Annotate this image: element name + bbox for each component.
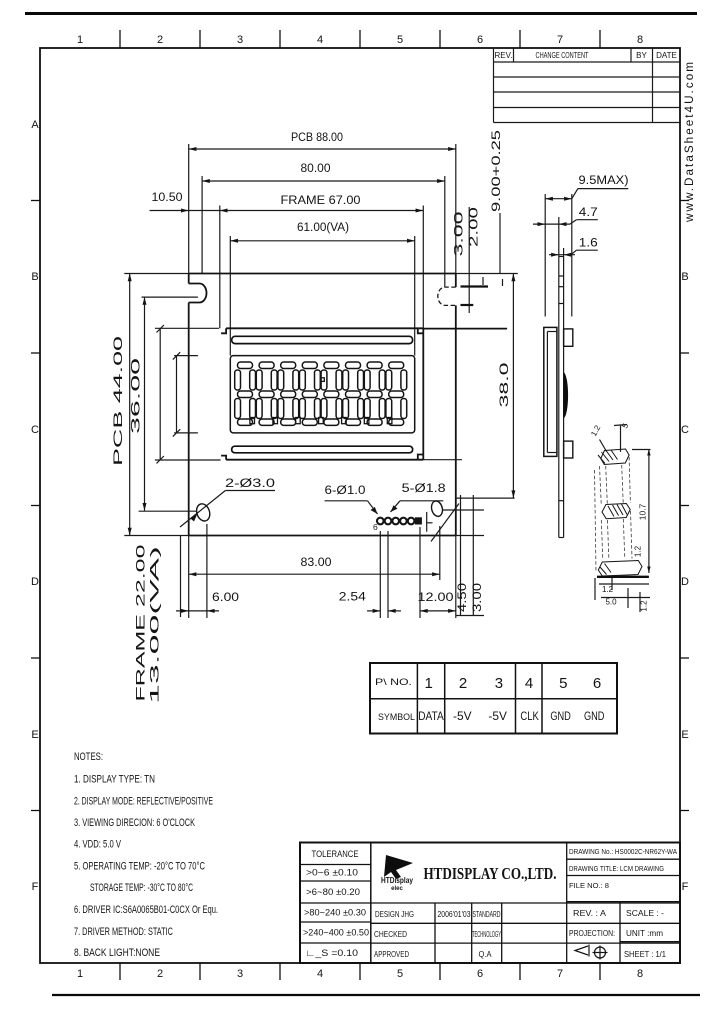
svg-text:5: 5 xyxy=(559,675,567,692)
svg-text:SYMBOL: SYMBOL xyxy=(378,712,415,723)
svg-text:4.50: 4.50 xyxy=(457,583,469,612)
dimension line 12.00 xyxy=(420,610,456,612)
svg-text:6: 6 xyxy=(477,968,483,980)
digit 8 xyxy=(386,362,407,425)
svg-text:FILE NO.: 8: FILE NO.: 8 xyxy=(569,881,609,890)
dimension line PCB 88.00 xyxy=(189,148,456,150)
extension line pin5 down xyxy=(387,531,389,618)
side view bottom tab xyxy=(564,441,573,458)
dimension line 36.00 xyxy=(144,297,146,511)
pcb left edge xyxy=(188,274,190,284)
detail mid segment xyxy=(602,504,630,519)
dimension line 80.00 xyxy=(202,180,445,182)
tolerance texts xyxy=(303,849,369,958)
side view pcb strip bottom cap xyxy=(559,537,564,539)
dimension line 2.54 xyxy=(367,610,380,612)
extension line bottom right xyxy=(456,615,484,617)
svg-text:P\ NO.: P\ NO. xyxy=(375,677,412,687)
svg-text:2-Ø3.0: 2-Ø3.0 xyxy=(225,478,275,490)
svg-text:3: 3 xyxy=(237,34,243,46)
svg-text:D: D xyxy=(681,576,689,588)
svg-text:SCALE : -: SCALE : - xyxy=(626,908,664,918)
extension line 4.50 xyxy=(460,495,462,616)
pin 3 circle xyxy=(400,518,407,525)
extension line frame area down xyxy=(180,536,182,618)
pcb right edge xyxy=(455,274,457,288)
svg-text:Q.A: Q.A xyxy=(479,949,492,959)
title block outline xyxy=(300,843,680,964)
svg-text:1. DISPLAY TYPE: TN: 1. DISPLAY TYPE: TN xyxy=(74,774,155,786)
detail bottom segment xyxy=(598,561,642,577)
bezel right edge xyxy=(422,328,424,459)
pin 5 circle xyxy=(385,518,392,525)
bezel bottom edge xyxy=(226,459,423,461)
side view pcb strip right edge xyxy=(563,257,565,538)
dimension line 9.5MAX xyxy=(545,198,572,200)
extension line hole centerline xyxy=(139,510,196,512)
extension line 38.0 bottom xyxy=(456,497,514,499)
dimension line 61.00(VA) xyxy=(230,240,414,242)
bezel top extension left xyxy=(155,327,219,329)
svg-text:>6~80 ±0.20: >6~80 ±0.20 xyxy=(306,887,360,897)
extension line 3.00 xyxy=(472,495,474,616)
pcb bottom edge extension left xyxy=(124,535,188,537)
svg-text:4. VDD: 5.0 V: 4. VDD: 5.0 V xyxy=(74,839,121,851)
bezel bottom extension right xyxy=(423,459,462,461)
svg-text:BY: BY xyxy=(636,51,647,60)
revision table header text xyxy=(495,51,677,60)
detail bottom dims xyxy=(599,583,649,585)
left mounting slot xyxy=(189,284,207,303)
svg-text:HTDISPLAY CO.,LTD.: HTDISPLAY CO.,LTD. xyxy=(424,864,557,883)
bezel bottom reflector bar xyxy=(232,446,413,453)
svg-text:DATA: DATA xyxy=(418,711,444,723)
company logo arrow xyxy=(384,855,413,879)
bezel bottom-left tab xyxy=(221,456,226,460)
digit 7 xyxy=(364,362,385,425)
extension line VA left up xyxy=(229,236,231,356)
extension line slot centerline xyxy=(142,296,198,298)
svg-text:STORAGE TEMP: -30°C TO 80°C: STORAGE TEMP: -30°C TO 80°C xyxy=(90,882,193,894)
svg-text:1: 1 xyxy=(77,34,83,46)
digit 6 xyxy=(343,362,364,425)
svg-text:38.0: 38.0 xyxy=(497,362,511,408)
bezel top-left tab xyxy=(221,328,226,333)
pin row tick xyxy=(426,512,428,532)
svg-text:80.00: 80.00 xyxy=(301,163,331,175)
extension line PCB right up xyxy=(455,144,457,274)
extension line pin1 down xyxy=(419,527,421,618)
svg-text:6: 6 xyxy=(477,34,483,46)
svg-text:>80~240 ±0.30: >80~240 ±0.30 xyxy=(304,908,366,918)
pin 6 circle xyxy=(377,518,384,525)
extension line for 2.00 xyxy=(468,207,470,313)
svg-text:2006'01'03: 2006'01'03 xyxy=(438,909,471,919)
lcd glass / VA outline xyxy=(230,356,414,433)
dimension line 38.0 xyxy=(512,274,514,499)
dimension line 13.00(VA) xyxy=(176,356,178,433)
svg-text:6-Ø1.0: 6-Ø1.0 xyxy=(325,485,366,497)
svg-text:5.0: 5.0 xyxy=(605,598,617,607)
svg-text:REV.: REV. xyxy=(495,51,513,60)
svg-text:TECHNOLOGY: TECHNOLOGY xyxy=(472,929,501,939)
svg-text:F: F xyxy=(682,881,689,893)
page bottom edge line xyxy=(52,994,700,996)
svg-text:6: 6 xyxy=(593,675,601,692)
svg-text:FRAME 67.00: FRAME 67.00 xyxy=(281,195,361,207)
border zone numbers bottom xyxy=(77,968,643,980)
dimension line FRAME 22.00 xyxy=(159,328,161,459)
svg-text:A: A xyxy=(31,119,39,131)
svg-text:4.7: 4.7 xyxy=(579,207,598,219)
svg-text:FRAME 22.00: FRAME 22.00 xyxy=(134,544,148,702)
svg-text:6.00: 6.00 xyxy=(212,592,239,604)
side view strip ticks xyxy=(559,276,564,501)
svg-text:GND: GND xyxy=(550,711,571,723)
svg-text:13.00(VA): 13.00(VA) xyxy=(148,546,162,704)
svg-text:5: 5 xyxy=(397,34,403,46)
svg-text:DRAWING TITLE: LCM DRAWING: DRAWING TITLE: LCM DRAWING xyxy=(569,864,664,873)
border zone letters right xyxy=(681,271,689,893)
svg-text:D: D xyxy=(31,576,39,588)
digit 3 xyxy=(278,362,299,425)
leader line to left hole xyxy=(180,491,225,528)
svg-text:PCB 88.00: PCB 88.00 xyxy=(291,132,343,144)
side view top tab xyxy=(564,329,573,346)
svg-text:4: 4 xyxy=(317,968,323,980)
svg-text:UNIT :mm: UNIT :mm xyxy=(626,928,663,938)
detail dashed construction lines lower xyxy=(601,520,603,560)
extension line pcb left down xyxy=(188,536,190,619)
svg-text:DESIGN JHG: DESIGN JHG xyxy=(375,909,414,919)
right mounting slot (hidden) xyxy=(438,287,456,305)
bezel bottom-right tab notch xyxy=(418,455,424,460)
digit 5 xyxy=(321,362,342,425)
svg-text:elec: elec xyxy=(391,886,403,892)
dimension line 6.00 xyxy=(176,610,219,612)
svg-text:4: 4 xyxy=(317,34,323,46)
svg-text:10.50: 10.50 xyxy=(152,192,183,204)
svg-text:CHECKED: CHECKED xyxy=(374,929,407,939)
dimension line PCB 44.00 xyxy=(129,274,131,536)
pin table outline xyxy=(370,663,617,734)
side view pcb strip left edge xyxy=(558,257,560,538)
svg-text:>0~6 ±0.10: >0~6 ±0.10 xyxy=(306,868,358,878)
bezel top reflector bar xyxy=(232,336,413,343)
extension line pcb right down xyxy=(455,536,457,619)
left mounting hole xyxy=(194,502,211,523)
extension line right slot end up xyxy=(444,176,446,287)
svg-text:CLK: CLK xyxy=(520,711,539,723)
border column ticks top xyxy=(120,30,600,48)
svg-text:61.00(VA): 61.00(VA) xyxy=(297,222,349,234)
svg-text:8: 8 xyxy=(637,968,643,980)
svg-text:8. BACK LIGHT:NONE: 8. BACK LIGHT:NONE xyxy=(74,947,160,959)
right hole leader diagonal xyxy=(431,504,459,542)
pin table verticals xyxy=(417,663,542,734)
extension line frame right up xyxy=(422,206,424,329)
svg-text:2: 2 xyxy=(157,34,163,46)
svg-text:>240~400 ±0.50: >240~400 ±0.50 xyxy=(303,928,369,938)
side view pcb front ext xyxy=(558,217,560,257)
svg-text:7. DRIVER METHOD: STATIC: 7. DRIVER METHOD: STATIC xyxy=(74,926,173,938)
title block middle rows xyxy=(371,843,680,964)
svg-text:-5V: -5V xyxy=(453,711,472,723)
dimension line FRAME 67.00 and 10.50 xyxy=(150,210,424,212)
pcb top edge xyxy=(189,273,456,275)
svg-text:3: 3 xyxy=(495,675,503,692)
right hole centerline xyxy=(443,509,484,511)
svg-text:2. DISPLAY MODE: REFLECTIVE/PO: 2. DISPLAY MODE: REFLECTIVE/POSITIVE xyxy=(74,796,213,808)
svg-text:STANDARD: STANDARD xyxy=(473,909,501,919)
svg-text:E: E xyxy=(681,729,688,741)
svg-text:REV. : A: REV. : A xyxy=(573,908,606,918)
revision table xyxy=(494,48,681,123)
pin table mid line xyxy=(370,698,617,700)
svg-text:1.2: 1.2 xyxy=(640,600,649,612)
svg-text:2: 2 xyxy=(157,968,163,980)
svg-text:6: 6 xyxy=(373,522,378,532)
svg-text:HTDisplay: HTDisplay xyxy=(381,876,413,885)
extension line VA top left xyxy=(174,355,198,357)
side view bezel outer xyxy=(544,327,557,456)
side view cob blob xyxy=(564,372,568,418)
svg-text:3.00: 3.00 xyxy=(472,583,484,612)
detail dashed construction lines upper xyxy=(595,457,633,572)
svg-text:DATE: DATE xyxy=(656,51,677,60)
pcb top edge extension right xyxy=(456,273,518,275)
svg-text:TOLERANCE: TOLERANCE xyxy=(312,849,359,859)
bezel top edge xyxy=(226,327,423,329)
right section rows xyxy=(567,859,680,963)
svg-text:∟_S =0.10: ∟_S =0.10 xyxy=(305,948,358,958)
side view 9.5 extension right xyxy=(571,194,573,317)
border row ticks left xyxy=(31,201,40,811)
svg-text:1: 1 xyxy=(425,675,433,692)
small dash marks xyxy=(482,277,484,285)
digit detail view xyxy=(598,449,642,576)
dimension line 83.00 xyxy=(189,573,440,575)
svg-text:3.00: 3.00 xyxy=(454,212,466,257)
digit 1 xyxy=(235,362,256,425)
right mounting hole xyxy=(430,500,444,518)
pcb top edge extension left xyxy=(124,273,188,275)
detail dim 10.7 xyxy=(648,449,650,573)
decimal point marks xyxy=(250,378,392,424)
extension line right hole down xyxy=(439,526,441,580)
pin numbers xyxy=(425,675,602,692)
projection symbol xyxy=(575,945,608,960)
svg-text:C: C xyxy=(681,424,689,436)
svg-text:5: 5 xyxy=(397,968,403,980)
short dim line 3.00 right of pcb xyxy=(461,285,489,287)
bezel bottom extension left xyxy=(155,459,221,461)
svg-text:B: B xyxy=(681,271,688,283)
svg-text:7: 7 xyxy=(557,34,563,46)
bezel top extension right xyxy=(423,328,507,330)
svg-text:PCB 44.00: PCB 44.00 xyxy=(111,335,125,466)
svg-text:5. OPERATING TEMP: -20°C TO 70: 5. OPERATING TEMP: -20°C TO 70°C xyxy=(74,861,205,873)
svg-text:E: E xyxy=(31,729,38,741)
svg-text:1.2: 1.2 xyxy=(602,585,614,594)
pin 1 square xyxy=(415,517,422,524)
svg-text:1.6: 1.6 xyxy=(579,238,598,250)
detail baseline xyxy=(597,576,649,578)
notes xyxy=(74,751,218,959)
svg-text:www.DataSheet4U.com: www.DataSheet4U.com xyxy=(684,60,696,223)
extension line for 9.00+0.25 xyxy=(499,213,501,274)
tolerance rows xyxy=(300,865,371,944)
svg-text:NOTES:: NOTES: xyxy=(74,751,103,763)
border row ticks right xyxy=(680,201,689,811)
extension line VA bottom left xyxy=(174,432,198,434)
svg-text:2.54: 2.54 xyxy=(339,592,367,604)
bezel top-right tab notch xyxy=(418,328,424,333)
svg-text:9.00+0.25: 9.00+0.25 xyxy=(491,130,503,212)
svg-text:2.00: 2.00 xyxy=(469,207,481,247)
svg-text:8: 8 xyxy=(637,34,643,46)
side view pcb strip top cap xyxy=(559,256,564,258)
border zone numbers top xyxy=(77,34,643,46)
border column ticks bottom xyxy=(120,963,600,980)
extension line slot end up xyxy=(201,176,203,274)
svg-text:APPROVED: APPROVED xyxy=(374,949,409,959)
digit 4 xyxy=(300,362,321,425)
svg-text:3: 3 xyxy=(237,968,243,980)
digit 2 xyxy=(256,362,277,425)
svg-text:83.00: 83.00 xyxy=(301,557,332,569)
extension line left hole down xyxy=(206,524,208,618)
svg-text:PROJECTION:: PROJECTION: xyxy=(569,928,615,938)
svg-text:SHEET : 1/1: SHEET : 1/1 xyxy=(624,949,666,959)
extension line PCB left up xyxy=(188,144,190,274)
svg-text:10.7: 10.7 xyxy=(638,503,648,520)
svg-text:9.5MAX): 9.5MAX) xyxy=(579,175,629,187)
svg-text:B: B xyxy=(31,271,38,283)
svg-text:6. DRIVER IC:S6A0065B01-C0CX O: 6. DRIVER IC:S6A0065B01-C0CX Or Equ. xyxy=(74,904,218,916)
short dim line 2.00 right of pcb xyxy=(461,304,474,306)
dimension line 4.7 xyxy=(533,223,570,225)
svg-text:2: 2 xyxy=(459,675,467,692)
svg-text:C: C xyxy=(31,424,39,436)
svg-text:3. VIEWING DIRECION: 6 O'CLOC: 3. VIEWING DIRECION: 6 O'CLOCK xyxy=(74,817,195,829)
pin 2 circle xyxy=(408,518,415,525)
detail top segment xyxy=(601,449,629,465)
svg-text:GND: GND xyxy=(584,711,605,723)
svg-text:7: 7 xyxy=(557,968,563,980)
extension line frame left up xyxy=(219,206,221,329)
pin 4 circle xyxy=(392,518,399,525)
tolerance column divider xyxy=(370,843,372,964)
pcb bottom edge extension right xyxy=(456,535,484,537)
border zone letters left xyxy=(31,119,39,893)
svg-text:F: F xyxy=(32,881,39,893)
svg-text:36.00: 36.00 xyxy=(129,357,143,434)
extension line VA right up xyxy=(414,236,416,356)
page top edge line xyxy=(25,12,697,15)
extension line pin6 down xyxy=(379,531,381,618)
svg-text:DRAWING No.: HS0002C-NR62Y-WA: DRAWING No.: HS0002C-NR62Y-WA xyxy=(569,847,677,856)
svg-text:1: 1 xyxy=(77,968,83,980)
side view bezel inner line xyxy=(546,332,548,453)
svg-text:12.00: 12.00 xyxy=(418,592,454,604)
svg-text:CHANGE CONTENT: CHANGE CONTENT xyxy=(536,51,589,60)
design/check/approve texts xyxy=(374,909,501,959)
side view 9.5 extension left xyxy=(544,194,546,317)
svg-text:4: 4 xyxy=(525,675,533,692)
dimension line 1.6 xyxy=(549,254,575,256)
svg-text:-5V: -5V xyxy=(488,711,507,723)
side view pcb back ext xyxy=(563,248,565,257)
svg-text:1.2: 1.2 xyxy=(634,545,643,557)
pcb bottom edge xyxy=(189,535,456,537)
svg-text:5-Ø1.8: 5-Ø1.8 xyxy=(402,483,446,495)
